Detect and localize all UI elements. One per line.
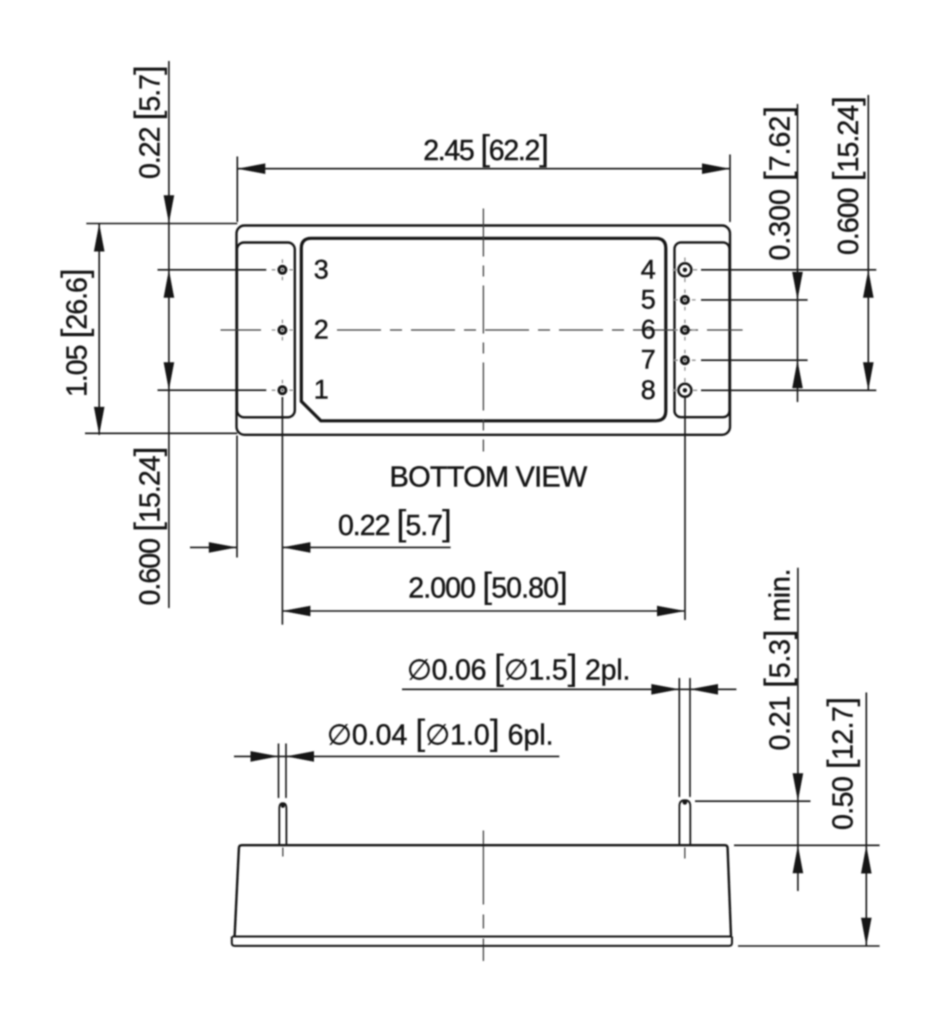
pin crosshair ticks	[272, 258, 698, 403]
pin5 extension line	[701, 299, 808, 301]
bottom-left extension line	[85, 432, 237, 434]
left pin extension right	[285, 744, 287, 799]
side view right pin	[679, 800, 690, 845]
vertical centerline top view	[482, 209, 484, 452]
left pin extension left	[278, 744, 280, 799]
pin7 extension line	[701, 359, 808, 361]
svg-text:2.45 [62.2]: 2.45 [62.2]	[423, 127, 548, 168]
svg-text:0.300 [7.62]: 0.300 [7.62]	[757, 106, 798, 261]
side view left pin	[279, 803, 286, 845]
horizontal centerline	[221, 209, 743, 962]
package bottom extension right	[738, 945, 880, 947]
pin1 column extension	[281, 397, 283, 625]
arrowheads	[237, 163, 265, 174]
package left edge extended down	[236, 436, 238, 558]
pin 4	[678, 263, 691, 276]
right pin extension right	[689, 678, 691, 797]
svg-text:8: 8	[641, 375, 656, 405]
0.50 dimension line	[865, 693, 867, 947]
2.45 left extension	[236, 157, 238, 223]
pin 5	[681, 296, 688, 303]
pin centerline side view right	[684, 848, 686, 859]
pin8 column extension	[684, 397, 686, 620]
pin8 extension line	[701, 389, 876, 391]
svg-text:3: 3	[314, 254, 329, 284]
svg-text:5: 5	[641, 284, 656, 314]
pin 7	[681, 357, 688, 364]
svg-text:∅0.06 [∅1.5] 2pl.: ∅0.06 [∅1.5] 2pl.	[407, 647, 630, 688]
svg-text:0.22 [5.7]: 0.22 [5.7]	[338, 502, 451, 543]
pin 1	[279, 387, 286, 394]
svg-text:6: 6	[641, 315, 656, 345]
0.600 right dimension line	[867, 95, 869, 391]
pin centerline side view left	[282, 848, 284, 857]
dia 0.04 leader	[234, 755, 559, 757]
pin1 extension line	[158, 389, 267, 391]
svg-text:∅0.04 [∅1.0] 6pl.: ∅0.04 [∅1.0] 6pl.	[327, 712, 554, 753]
svg-text:0.600 [15.24]: 0.600 [15.24]	[126, 447, 167, 605]
0.21 dimension line	[797, 568, 799, 891]
svg-text:1.05 [26.6]: 1.05 [26.6]	[54, 269, 95, 397]
2.45 right extension	[729, 155, 731, 223]
pin3 extension line	[158, 269, 267, 271]
left pin strip	[237, 243, 295, 418]
svg-text:0.50 [12.7]: 0.50 [12.7]	[819, 697, 860, 830]
svg-text:1: 1	[314, 375, 329, 405]
top-left extension line	[86, 223, 237, 225]
right pin extension left	[678, 678, 680, 797]
dia 0.06 leader	[402, 688, 736, 690]
long left vertical dimension line	[168, 61, 170, 608]
dimension + extension lines	[85, 61, 880, 946]
vertical centerline side view	[482, 831, 484, 962]
pin 8	[678, 384, 691, 397]
package top extension right	[734, 844, 880, 846]
svg-text:BOTTOM VIEW: BOTTOM VIEW	[390, 462, 588, 494]
0.22 mid dimension line	[282, 546, 450, 548]
svg-text:7: 7	[641, 345, 656, 375]
inner body rect with chamfer	[301, 238, 666, 420]
0.22 mid left tail	[190, 546, 237, 548]
svg-text:2: 2	[314, 315, 329, 345]
pin 6	[681, 327, 688, 334]
svg-text:4: 4	[641, 254, 656, 284]
2.45 dimension line	[237, 168, 730, 170]
pin4 extension line	[701, 269, 876, 271]
svg-text:0.600 [15.24]: 0.600 [15.24]	[825, 97, 866, 255]
side view body	[235, 845, 731, 936]
package outline (bottom view)	[237, 226, 731, 435]
right pin strip	[675, 242, 730, 417]
0.300 dimension line	[797, 104, 799, 402]
svg-text:0.21 [5.3] min.: 0.21 [5.3] min.	[757, 569, 798, 751]
2.000 dimension line	[282, 610, 685, 612]
side view base flange	[232, 937, 732, 946]
pin 2	[279, 327, 286, 334]
1.05 dimension line	[98, 224, 100, 435]
svg-text:2.000 [50.80]: 2.000 [50.80]	[408, 565, 567, 606]
svg-text:0.22 [5.7]: 0.22 [5.7]	[127, 66, 168, 179]
pin tip extension	[695, 800, 811, 802]
pin 3	[279, 266, 286, 273]
side view seam line	[232, 936, 731, 938]
